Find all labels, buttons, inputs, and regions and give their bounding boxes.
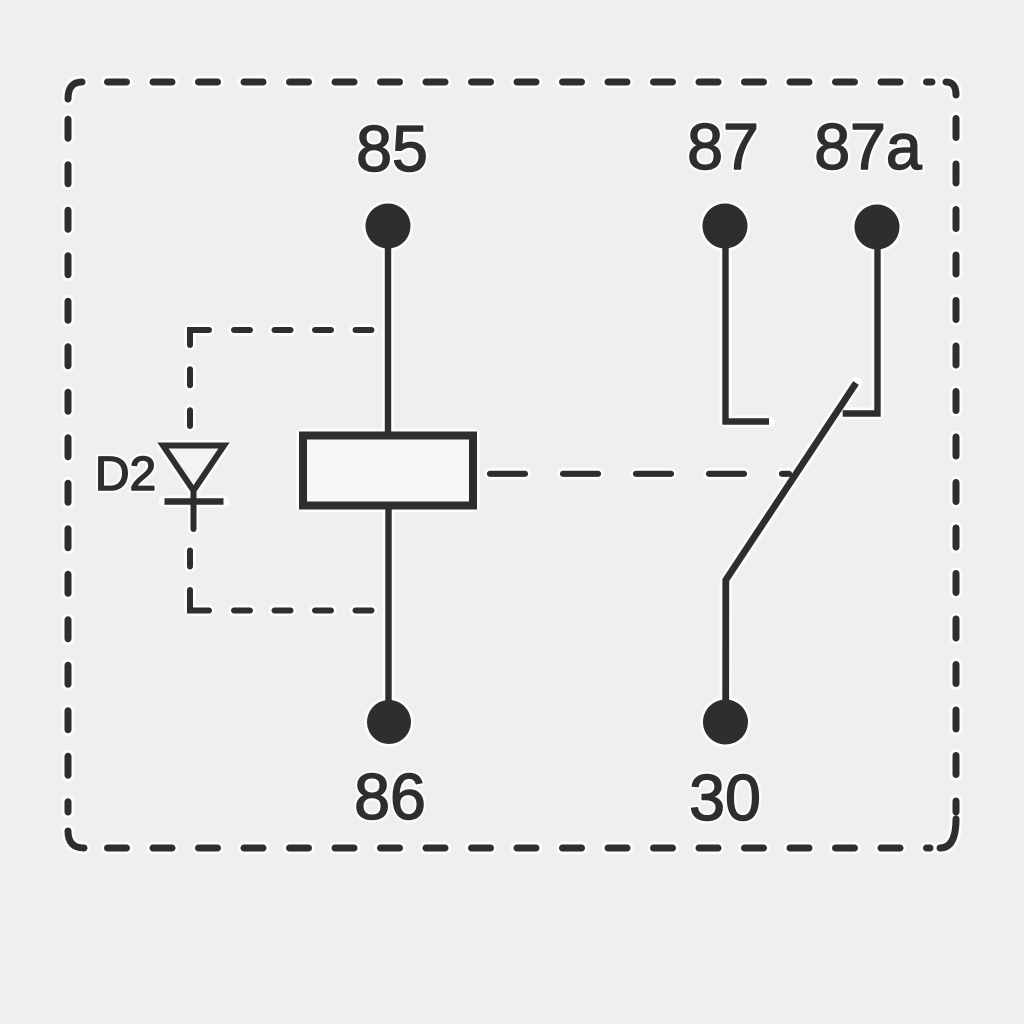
svg-text:30: 30 xyxy=(689,762,761,834)
svg-text:87a: 87a xyxy=(814,111,922,183)
svg-text:86: 86 xyxy=(354,761,426,833)
svg-text:D2: D2 xyxy=(95,448,156,501)
svg-text:85: 85 xyxy=(356,113,428,185)
svg-text:87: 87 xyxy=(687,111,759,183)
